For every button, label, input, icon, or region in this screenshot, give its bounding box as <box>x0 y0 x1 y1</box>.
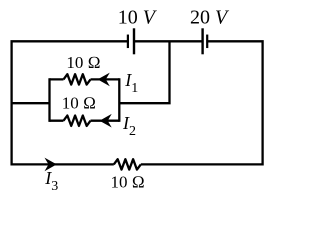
svg-text:I2: I2 <box>122 113 136 139</box>
svg-text:I3: I3 <box>44 168 58 194</box>
svg-text:10 V: 10 V <box>118 7 158 29</box>
svg-text:10 Ω: 10 Ω <box>66 53 100 72</box>
svg-text:I1: I1 <box>124 70 138 96</box>
svg-text:10 Ω: 10 Ω <box>62 93 96 112</box>
svg-text:20 V: 20 V <box>190 7 230 29</box>
svg-text:10 Ω: 10 Ω <box>111 173 145 192</box>
